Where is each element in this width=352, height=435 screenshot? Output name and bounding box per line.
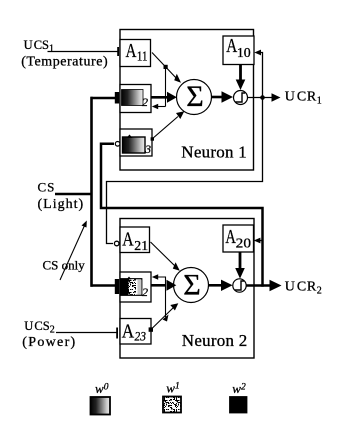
- svg-text:11: 11: [137, 49, 148, 64]
- label UCS1: [24, 38, 54, 55]
- svg-text:0: 0: [104, 382, 109, 392]
- junction on A11 diagonal: [164, 65, 168, 69]
- svg-text:3: 3: [144, 144, 151, 156]
- box A10: [223, 36, 254, 65]
- wire CS to trunk: [55, 193, 93, 195]
- wire A11 to sigma1 diagonal: [152, 53, 181, 83]
- wire A22 to sigma2 thick: [151, 280, 176, 291]
- svg-text:A: A: [122, 230, 133, 251]
- svg-text:10: 10: [237, 45, 251, 60]
- label Neuron 2: [182, 331, 248, 350]
- svg-text:UCR2: UCR2: [285, 280, 323, 297]
- neuron 2 box: [120, 219, 254, 359]
- svg-text:Σ: Σ: [183, 268, 200, 301]
- svg-text:23: 23: [135, 329, 147, 344]
- op threshold f2: [233, 279, 246, 292]
- arrow CS only pointer: [60, 221, 87, 281]
- label UCR1: [285, 90, 323, 107]
- wire f2 output thick: [246, 280, 282, 292]
- wire trunk to A22: [91, 279, 120, 294]
- wire A21 to sigma2 diagonal: [151, 242, 180, 271]
- op sum sigma2: [174, 268, 209, 303]
- box A12: [120, 85, 151, 113]
- label (Temperature): [21, 54, 108, 69]
- wire A13 to sigma1 diagonal: [151, 111, 185, 140]
- op sum sigma1: [177, 80, 212, 115]
- svg-text:A: A: [226, 36, 237, 57]
- box A23: [120, 319, 151, 345]
- svg-text:(Temperature): (Temperature): [21, 54, 108, 69]
- connector circle A13: [115, 142, 120, 147]
- label CS only: [43, 257, 86, 272]
- box A22: [120, 272, 151, 302]
- svg-text:Σ: Σ: [186, 80, 203, 113]
- label (Light): [38, 197, 85, 212]
- svg-text:Neuron 2: Neuron 2: [182, 331, 248, 350]
- wire A10 to f1: [236, 65, 246, 91]
- legend label w2: [232, 381, 246, 396]
- svg-text:2: 2: [142, 95, 148, 109]
- wire feedback to A20: [254, 238, 264, 244]
- svg-text:A: A: [225, 227, 236, 248]
- box A20: [223, 225, 254, 252]
- svg-text:w: w: [232, 381, 241, 396]
- wire sigma1 to f1 thick: [212, 91, 234, 103]
- svg-text:UCR1: UCR1: [285, 90, 323, 107]
- svg-text:(Power): (Power): [22, 335, 76, 350]
- svg-text:20: 20: [236, 235, 252, 250]
- svg-text:w: w: [166, 381, 175, 396]
- svg-text:CS: CS: [38, 179, 56, 194]
- legend label w0: [95, 381, 109, 396]
- svg-text:1: 1: [175, 382, 180, 392]
- label UCS2: [24, 319, 54, 336]
- label Neuron 1: [181, 143, 247, 162]
- wire A12 to sigma1 thick: [151, 92, 177, 103]
- op threshold f1: [234, 91, 248, 105]
- legend label w1: [166, 381, 179, 396]
- wire CS trunk vertical: [90, 97, 93, 287]
- box A21: [120, 227, 150, 253]
- wire UCS1 to A11: [48, 47, 120, 56]
- svg-text:2: 2: [142, 285, 148, 299]
- wire learning tap to A12: [152, 67, 166, 109]
- wire UCR1 feedback to A21: [107, 98, 263, 244]
- legend w1 square: [163, 397, 181, 413]
- svg-text:w: w: [95, 381, 104, 396]
- wire trunk to A12: [91, 92, 120, 104]
- connector circle A21: [114, 241, 119, 246]
- wire sigma2 to f2 thick: [209, 280, 233, 291]
- wire UCR1 feedback to A10: [254, 50, 262, 98]
- svg-text:2: 2: [241, 382, 246, 392]
- wire A23 to sigma2 diagonal: [149, 303, 179, 332]
- neuron 1 box: [120, 30, 254, 171]
- legend w0 square: [91, 397, 111, 415]
- svg-text:A: A: [122, 322, 134, 343]
- wire learning tap to A22: [152, 274, 166, 317]
- box A11: [120, 40, 151, 67]
- legend w2 square: [230, 397, 247, 413]
- junction dot UCR1: [260, 95, 265, 100]
- svg-text:A: A: [126, 41, 137, 62]
- wire f1 output: [248, 93, 281, 102]
- label CS: [38, 179, 56, 194]
- svg-text:Neuron 1: Neuron 1: [181, 143, 247, 162]
- wire A20 to f2: [235, 252, 245, 279]
- svg-text:(Light): (Light): [38, 197, 85, 212]
- label UCR2: [285, 280, 323, 297]
- svg-text:21: 21: [134, 238, 148, 253]
- wire UCS2 to A23: [56, 328, 118, 339]
- box A13: [120, 129, 152, 156]
- label (Power): [22, 335, 76, 350]
- wire UCR2 feedback thick: [101, 144, 263, 287]
